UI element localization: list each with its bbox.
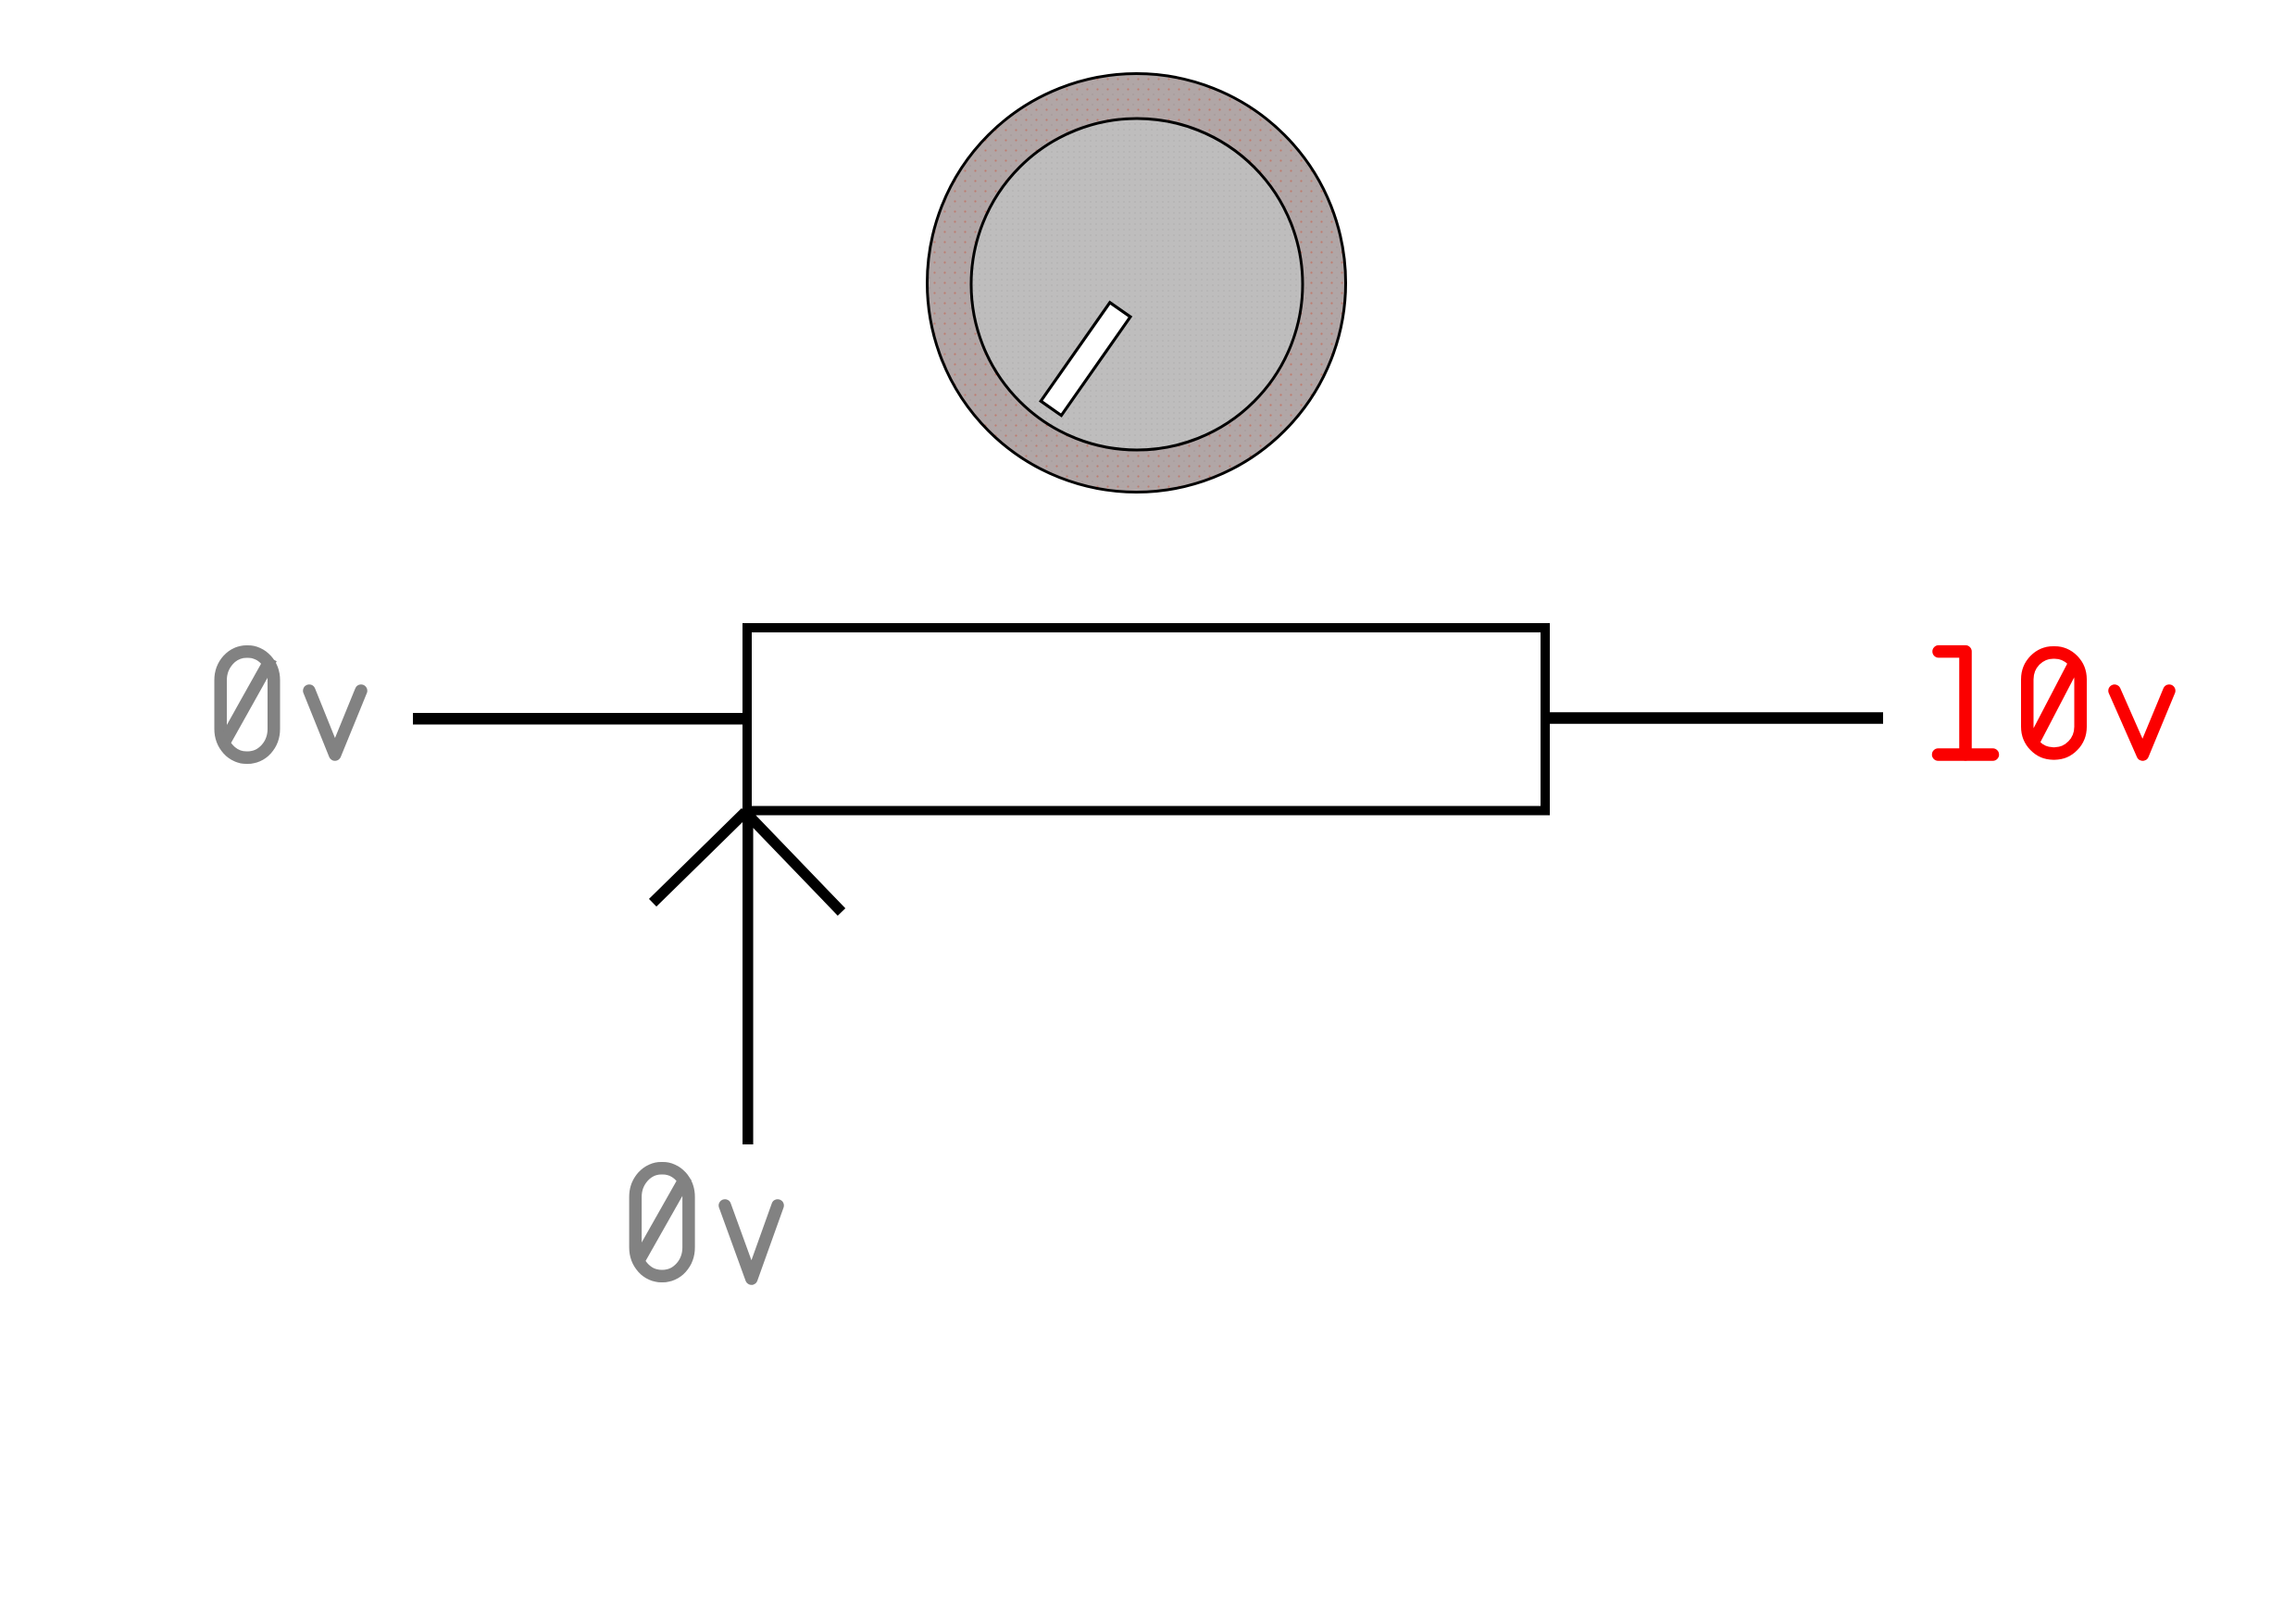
label 0v left terminal [220, 652, 361, 758]
knob face [971, 119, 1303, 450]
label 0v wiper [635, 1168, 778, 1279]
wire right terminal [1545, 712, 1883, 724]
knob indicator mark [1041, 303, 1130, 416]
wiper wire [742, 806, 754, 1144]
wiper arrow right barb [745, 812, 842, 912]
knob outer ring [928, 74, 1346, 493]
wiper arrow left barb [653, 812, 745, 903]
label 10v right terminal [1939, 652, 2170, 755]
wire left terminal [413, 713, 747, 725]
potentiometer body R1 [747, 628, 1545, 811]
